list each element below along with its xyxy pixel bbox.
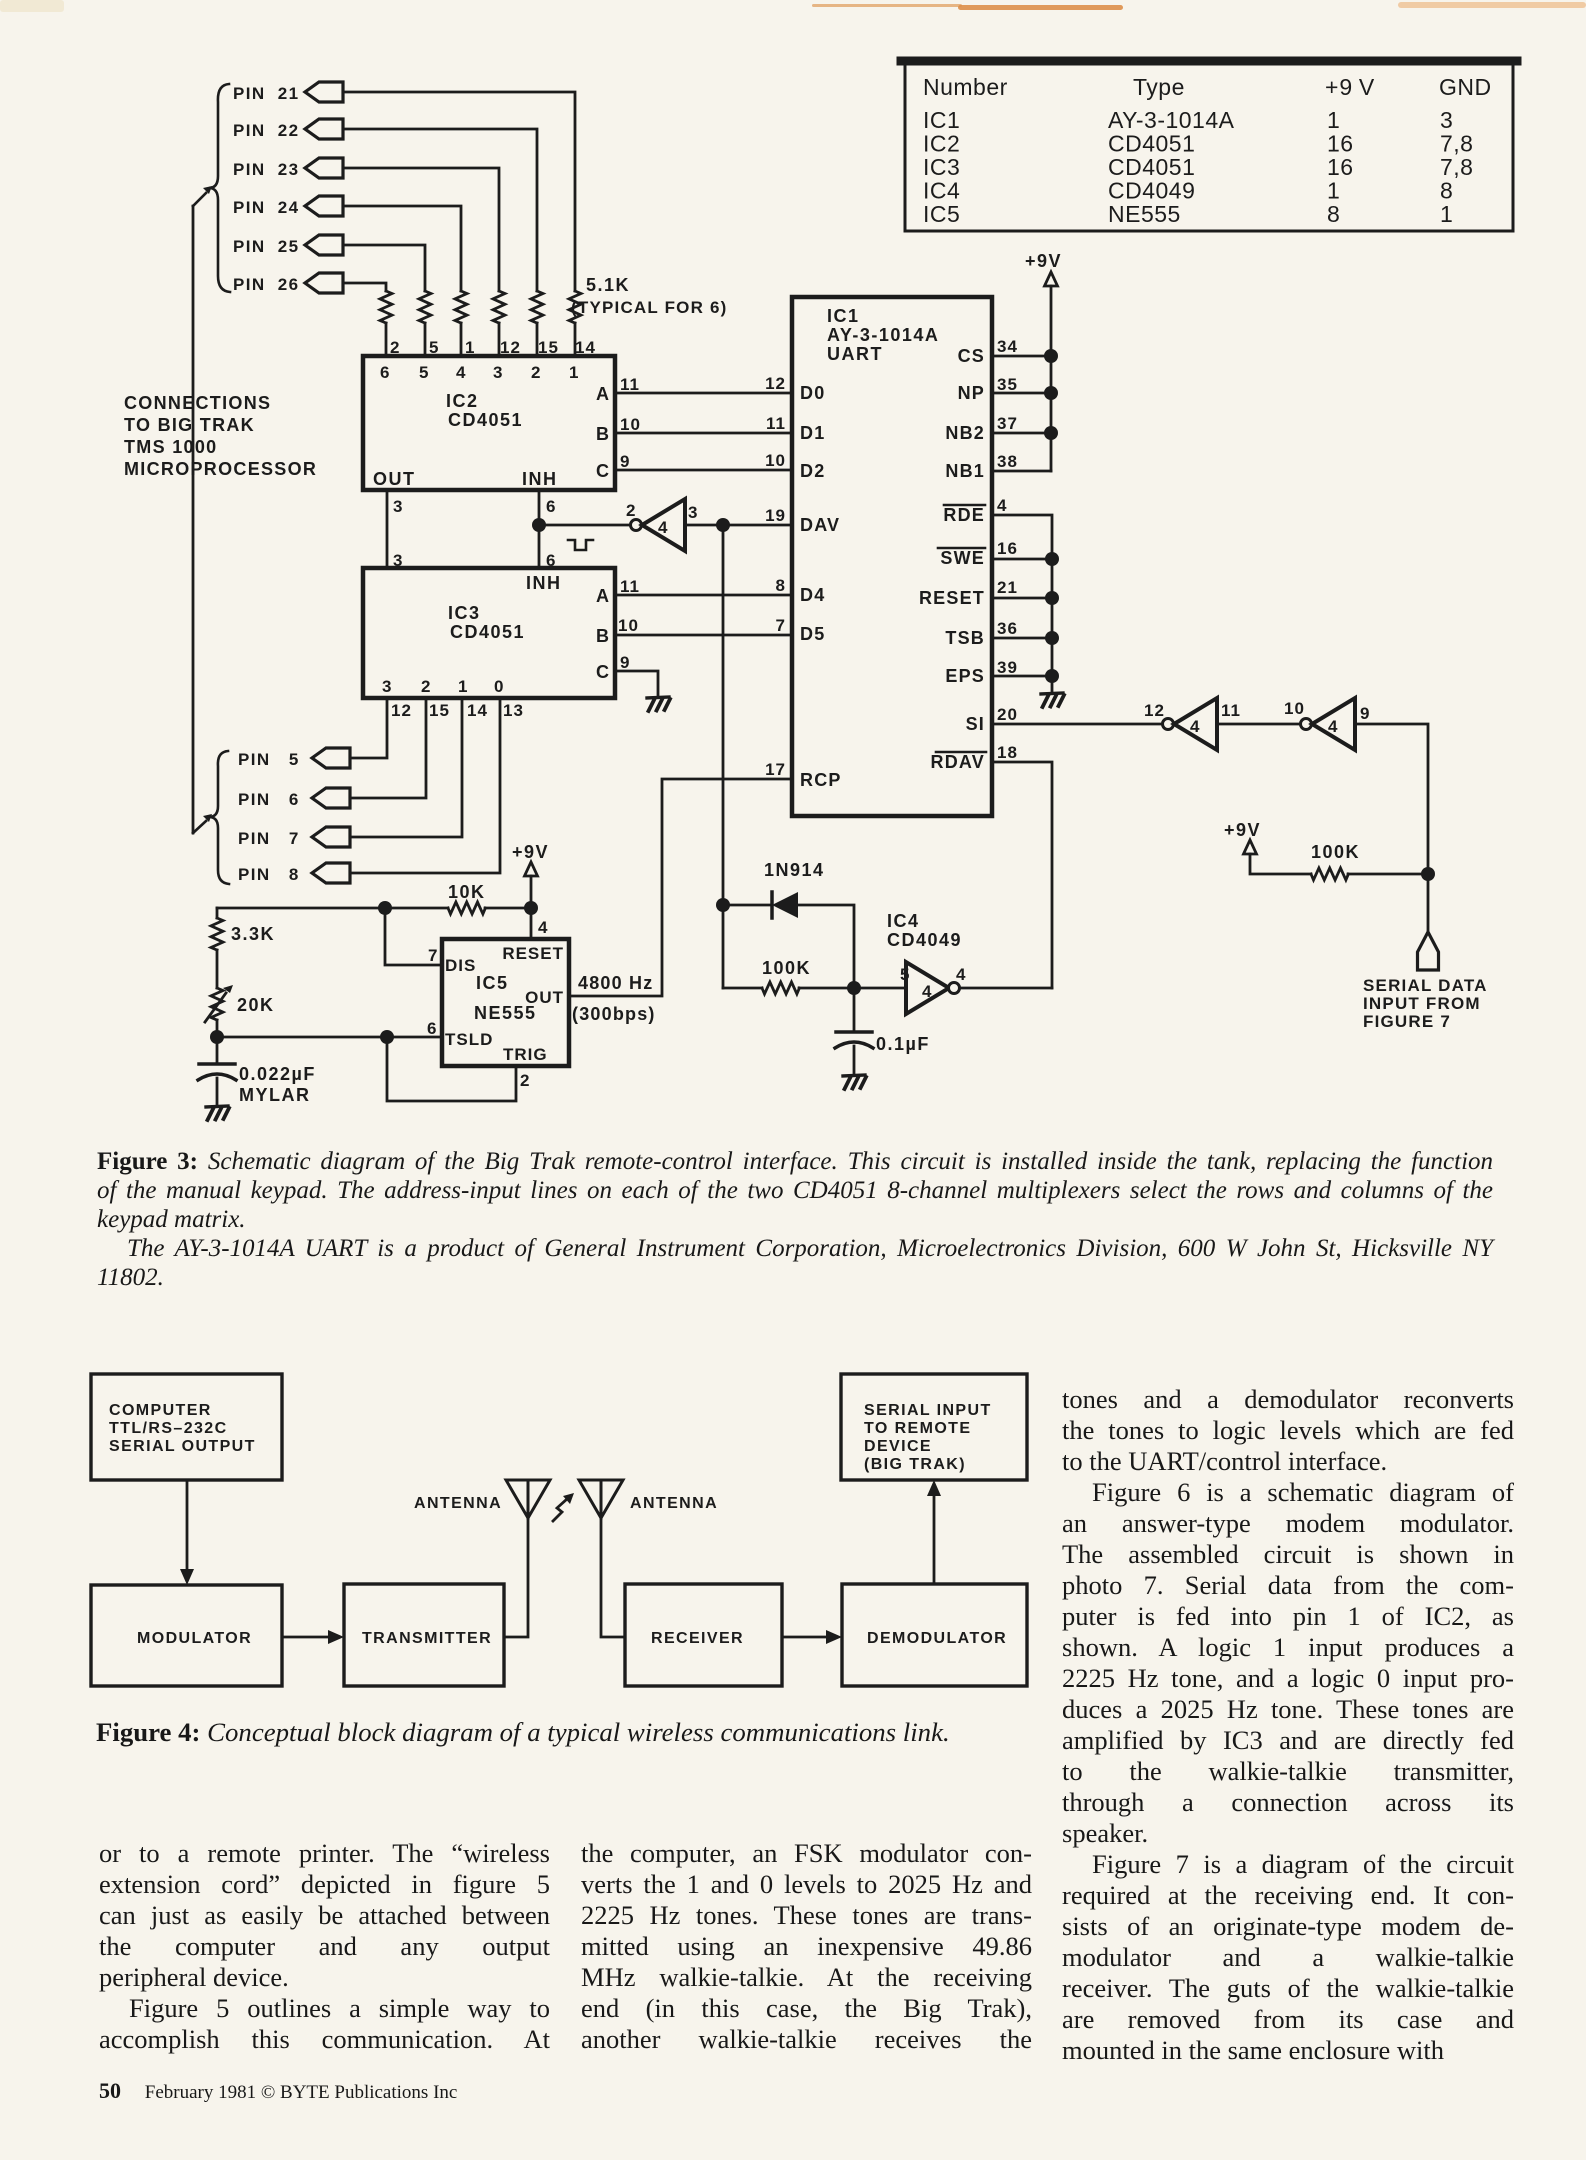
svg-text:C: C [596, 662, 610, 682]
resistor 5.1K #1 (PIN 21) [569, 291, 581, 323]
resistor 5.1K #4 (PIN 24) [455, 291, 467, 323]
svg-text:A: A [596, 586, 610, 606]
svg-text:B: B [596, 424, 610, 444]
svg-text:2: 2 [520, 1071, 530, 1090]
antenna right [579, 1480, 623, 1518]
junction CS [1044, 349, 1058, 363]
svg-text:3: 3 [393, 497, 403, 516]
wire antenna right to RECEIVER [601, 1518, 625, 1637]
svg-text:D2: D2 [800, 461, 825, 481]
wire IC1.EPS to rail [992, 675, 1052, 678]
svg-text:RESET: RESET [919, 588, 985, 608]
resistor 5.1K #3 (PIN 23) [493, 291, 505, 323]
svg-text:34: 34 [997, 337, 1018, 356]
svg-text:1: 1 [458, 677, 468, 696]
scanner streak top right [1398, 2, 1586, 8]
brace PIN21-26 group [209, 84, 230, 292]
brace PIN5-8 group [209, 751, 229, 884]
svg-text:D4: D4 [800, 585, 825, 605]
svg-text:EPS: EPS [945, 666, 985, 686]
svg-text:12: 12 [765, 374, 786, 393]
wire IC2.OUT to IC3 pin3 [386, 490, 389, 568]
svg-text:ANTENNA: ANTENNA [630, 1495, 718, 1512]
figure 3 caption [97, 1147, 1493, 1292]
svg-text:IC5: IC5 [476, 973, 509, 993]
wire IC3.A to IC1.D4 [615, 594, 792, 597]
label ANTENNA left [414, 1495, 502, 1512]
label SERIAL DATA INPUT FROM FIGURE 7 [1363, 976, 1488, 1031]
wire IC1.CS to rail [992, 355, 1051, 358]
IC1 title [827, 306, 939, 364]
connector PIN 23 [233, 158, 343, 179]
arrow COMPUTER to MODULATOR [180, 1480, 194, 1585]
wire +9V to 100K [1250, 854, 1311, 874]
label 4800 Hz / 300bps [572, 973, 656, 1024]
ground 0.1uF [843, 1075, 866, 1089]
potentiometer 20K [205, 985, 233, 1037]
svg-text:TO REMOTE: TO REMOTE [864, 1420, 971, 1437]
label +9V (IC1) [1025, 251, 1062, 271]
wire U4c input from serial node [1355, 724, 1428, 932]
svg-text:GND: GND [1439, 74, 1492, 100]
wire IC2.C to IC1.D2 [615, 469, 792, 472]
labels pin 6/6 (INH net) [546, 497, 556, 570]
svg-text:DEMODULATOR: DEMODULATOR [867, 1630, 1007, 1647]
svg-text:IC1: IC1 [923, 107, 960, 133]
svg-text:7,8: 7,8 [1440, 131, 1473, 157]
IC3 bottom pin numbers [391, 701, 524, 720]
parts table rows [923, 107, 1473, 227]
svg-text:PIN 5: PIN 5 [238, 750, 300, 769]
wire IC2.A to IC1.D0 [615, 392, 792, 395]
svg-text:SERIAL DATA: SERIAL DATA [1363, 976, 1488, 995]
label pins 11/12 (D0 net) [620, 375, 640, 394]
svg-text:16: 16 [997, 539, 1018, 558]
svg-text:0.022µF: 0.022µF [239, 1064, 316, 1084]
junction TSLD/TRIG [380, 1030, 394, 1044]
svg-text:+9 V: +9 V [1325, 74, 1375, 100]
block COMPUTER [91, 1374, 282, 1480]
wire IC3 to PIN 7 [350, 698, 462, 837]
svg-text:SERIAL INPUT: SERIAL INPUT [864, 1402, 992, 1419]
svg-text:CD4051: CD4051 [1108, 131, 1195, 157]
labels IC4 pins 5/4/4 [900, 965, 966, 1001]
svg-text:MICROPROCESSOR: MICROPROCESSOR [124, 459, 317, 479]
svg-text:DIS: DIS [445, 956, 476, 975]
svg-text:DEVICE: DEVICE [864, 1438, 932, 1455]
label 20K [237, 995, 275, 1015]
radio link symbol [553, 1493, 574, 1521]
wire 555 TRIG pin2 [387, 1037, 516, 1101]
svg-text:PIN 6: PIN 6 [238, 790, 300, 809]
svg-text:SI: SI [966, 714, 985, 734]
svg-text:18: 18 [997, 743, 1018, 762]
svg-text:D5: D5 [800, 624, 825, 644]
svg-text:4: 4 [456, 363, 466, 382]
svg-text:(BIG TRAK): (BIG TRAK) [864, 1456, 966, 1473]
capacitor 0.1uF [835, 988, 873, 1074]
junction NB2 [1044, 426, 1058, 440]
svg-text:AY-3-1014A: AY-3-1014A [827, 325, 939, 345]
svg-text:35: 35 [997, 375, 1018, 394]
wire resistor #1 to IC2 [574, 323, 577, 356]
svg-text:COMPUTER: COMPUTER [109, 1402, 212, 1419]
svg-text:TSLD: TSLD [445, 1030, 493, 1049]
connector PIN 6 [238, 788, 350, 809]
label IC4 CD4049 [887, 911, 962, 950]
wire resistor #4 to IC2 [460, 323, 463, 356]
svg-text:5.1K: 5.1K [586, 275, 630, 295]
resistor 5.1K #6 (PIN 26) [380, 291, 392, 323]
svg-text:PIN 22: PIN 22 [233, 121, 300, 140]
svg-text:IC1: IC1 [827, 306, 860, 326]
svg-text:3: 3 [688, 503, 698, 522]
wire +9V rail [1050, 286, 1053, 471]
svg-text:1N914: 1N914 [764, 860, 825, 880]
svg-text:NP: NP [958, 383, 985, 403]
svg-text:D1: D1 [800, 423, 825, 443]
svg-text:0.1µF: 0.1µF [876, 1034, 930, 1054]
block DEMODULATOR [842, 1584, 1027, 1686]
svg-text:15: 15 [429, 701, 450, 720]
resistor 3.3K [211, 908, 223, 988]
svg-text:6: 6 [380, 363, 390, 382]
svg-text:TTL/RS–232C: TTL/RS–232C [109, 1420, 228, 1437]
svg-text:+9V: +9V [1025, 251, 1062, 271]
wire IC1.NP to rail [992, 392, 1051, 395]
antenna left [506, 1480, 550, 1518]
power +9V arrow (serial) [1244, 840, 1257, 854]
arrow DEMODULATOR to SERIAL INPUT [927, 1480, 941, 1584]
wire resistor #5 to IC2 [424, 323, 427, 356]
svg-text:RESET: RESET [502, 944, 564, 963]
diode 1N914 [772, 892, 798, 918]
svg-text:9: 9 [620, 452, 630, 471]
svg-text:+9V: +9V [1224, 820, 1261, 840]
svg-text:2: 2 [626, 501, 636, 520]
IC5 labels [445, 944, 564, 1064]
wire IC1.RDAV to IC4 output [992, 762, 1052, 988]
block TRANSMITTER [344, 1584, 504, 1686]
wire diode anode [723, 904, 770, 907]
wire IC1.NB2 to rail [992, 432, 1051, 435]
svg-text:20: 20 [997, 705, 1018, 724]
power +9V arrow (IC1) [1045, 272, 1058, 286]
svg-text:RDE: RDE [943, 505, 985, 525]
label pin 9 (IC3.C) [620, 653, 630, 672]
label 1N914 [764, 860, 825, 880]
svg-text:6: 6 [546, 497, 556, 516]
inverter U4c (CD4049) [1301, 698, 1356, 750]
ground IC3.C [647, 697, 670, 711]
junction EPS [1045, 669, 1059, 683]
IC5 NE555 box [442, 939, 569, 1066]
IC3 labels [382, 573, 610, 696]
capacitor 0.022uF [198, 1037, 236, 1105]
svg-text:10: 10 [1284, 699, 1305, 718]
svg-text:INH: INH [522, 469, 558, 489]
junction INH node [532, 518, 546, 532]
svg-text:SWE: SWE [940, 548, 985, 568]
junction bias/RESET [524, 901, 538, 915]
svg-text:4: 4 [956, 965, 966, 984]
scanner streak top middle 2 [958, 5, 1123, 10]
connector PIN 24 [233, 196, 343, 217]
svg-text:IC3: IC3 [923, 154, 960, 180]
svg-text:RDAV: RDAV [931, 752, 985, 772]
svg-text:7,8: 7,8 [1440, 154, 1473, 180]
svg-text:CD4049: CD4049 [887, 930, 962, 950]
svg-text:CD4051: CD4051 [450, 622, 525, 642]
svg-text:Number: Number [923, 74, 1008, 100]
svg-text:ANTENNA: ANTENNA [414, 1495, 502, 1512]
body column 3 [1062, 1384, 1514, 2066]
label 3.3K [231, 924, 275, 944]
svg-text:IC3: IC3 [448, 603, 481, 623]
svg-text:4: 4 [658, 518, 668, 537]
wire U4b to U4c [1217, 723, 1301, 726]
svg-text:1: 1 [1327, 178, 1340, 204]
junction TSLD left [210, 1030, 224, 1044]
svg-text:20K: 20K [237, 995, 275, 1015]
svg-text:10K: 10K [448, 882, 486, 902]
connector PIN 21 [233, 82, 343, 103]
ground IC1 control rail [1041, 693, 1064, 707]
svg-text:INH: INH [526, 573, 562, 593]
wire inverter U4a input to IC1.DAV [685, 524, 792, 527]
label pin 7 (555) [428, 946, 438, 965]
IC1 right pin names [919, 346, 985, 772]
label 0.022uF MYLAR [239, 1064, 316, 1105]
footer [99, 2078, 799, 2104]
svg-text:CS: CS [958, 346, 985, 366]
arrow to brace 1 [193, 186, 212, 206]
svg-text:7: 7 [776, 616, 786, 635]
svg-text:NE555: NE555 [474, 1003, 537, 1023]
svg-text:14: 14 [467, 701, 488, 720]
svg-text:(TYPICAL FOR 6): (TYPICAL FOR 6) [571, 298, 728, 317]
resistor 5.1K #2 (PIN 22) [531, 291, 543, 323]
svg-text:37: 37 [997, 414, 1018, 433]
label pin 2 (555) [520, 1071, 530, 1090]
svg-text:100K: 100K [1311, 842, 1360, 862]
label ANTENNA right [630, 1495, 718, 1512]
connector SERIAL DATA INPUT flag [1418, 932, 1439, 970]
svg-text:5: 5 [419, 363, 429, 382]
svg-text:2: 2 [531, 363, 541, 382]
wire IC4 output to RDAV [960, 987, 1052, 990]
svg-text:8: 8 [1327, 201, 1340, 227]
parts table box [901, 59, 1517, 231]
wire IC3.B to IC1.D5 [615, 634, 792, 637]
junction SWE [1045, 552, 1059, 566]
svg-text:CD4051: CD4051 [448, 410, 523, 430]
wire PIN 25 to resistor [343, 245, 425, 291]
wire IC2.B to IC1.D1 [615, 432, 792, 435]
svg-text:AY-3-1014A: AY-3-1014A [1108, 107, 1235, 133]
svg-text:3: 3 [493, 363, 503, 382]
svg-text:RCP: RCP [800, 770, 842, 790]
IC2 labels [373, 363, 610, 489]
block RECEIVER [625, 1584, 782, 1686]
connector PIN 7 [238, 827, 350, 848]
svg-text:PIN 21: PIN 21 [233, 84, 300, 103]
IC3 CD4051 box [363, 568, 615, 698]
wire IC3 to PIN 6 [350, 698, 426, 798]
wire IC2.INH to IC3.INH [538, 490, 541, 568]
svg-text:IC5: IC5 [923, 201, 960, 227]
IC1 right pin numbers [997, 337, 1018, 762]
svg-text:9: 9 [620, 653, 630, 672]
labels U4b pins 12/11/4 [1144, 701, 1241, 736]
body column 1 [99, 1838, 550, 2055]
wire IC1.RCP from 555 [569, 779, 792, 996]
svg-text:19: 19 [765, 506, 786, 525]
svg-text:12: 12 [391, 701, 412, 720]
svg-text:12: 12 [1144, 701, 1165, 720]
svg-text:1: 1 [569, 363, 579, 382]
svg-text:36: 36 [997, 619, 1018, 638]
svg-text:+9V: +9V [512, 842, 549, 862]
svg-text:IC2: IC2 [446, 391, 479, 411]
label 5.1K [571, 275, 728, 317]
wire DAV node down to 100K [722, 525, 725, 988]
svg-text:7: 7 [428, 946, 438, 965]
svg-text:B: B [596, 626, 610, 646]
svg-text:4: 4 [538, 918, 548, 937]
labels pin 3/3 (OUT net) [393, 497, 403, 570]
connector PIN 25 [233, 235, 343, 256]
svg-text:0: 0 [494, 677, 504, 696]
svg-text:PIN 7: PIN 7 [238, 829, 300, 848]
svg-text:C: C [596, 461, 610, 481]
svg-text:9: 9 [1360, 704, 1370, 723]
wire IC3 to PIN 5 [350, 698, 387, 758]
wire IC1.RDE to ground rail [992, 515, 1052, 692]
svg-text:INPUT FROM: INPUT FROM [1363, 994, 1481, 1013]
svg-text:39: 39 [997, 658, 1018, 677]
labels inverter U4a pins 2/3/4 [626, 501, 698, 537]
wire PIN 21 to resistor [343, 92, 575, 291]
block SERIAL INPUT TO REMOTE DEVICE [841, 1374, 1027, 1480]
svg-text:RECEIVER: RECEIVER [651, 1630, 744, 1647]
junction NP [1044, 386, 1058, 400]
arrow RECEIVER to DEMODULATOR [782, 1630, 842, 1644]
svg-text:D0: D0 [800, 383, 825, 403]
wire +9V to bias rail [530, 876, 533, 908]
svg-text:IC2: IC2 [923, 131, 960, 157]
svg-text:11: 11 [1221, 701, 1241, 720]
junction diode node [716, 898, 730, 912]
wire antenna left to TRANSMITTER [504, 1518, 528, 1637]
inverter IC4 CD4049 [906, 962, 960, 1014]
wire resistor #6 to IC2 [385, 323, 388, 356]
svg-text:TRANSMITTER: TRANSMITTER [362, 1630, 492, 1647]
svg-text:CD4049: CD4049 [1108, 178, 1195, 204]
resistor 100K (IC4 input) [723, 982, 906, 994]
connector PIN 8 [238, 863, 350, 884]
svg-text:NB2: NB2 [945, 423, 985, 443]
svg-text:TMS 1000: TMS 1000 [124, 437, 217, 457]
wire IC1.TSB to rail [992, 637, 1052, 640]
svg-text:MODULATOR: MODULATOR [137, 1630, 252, 1647]
resistor 5.1K #5 (PIN 25) [419, 291, 431, 323]
wire PIN 24 to resistor [343, 206, 461, 291]
arrow MODULATOR to TRANSMITTER [282, 1630, 344, 1644]
svg-text:TO BIG TRAK: TO BIG TRAK [124, 415, 255, 435]
connector PIN 5 [238, 748, 350, 769]
svg-text:SERIAL OUTPUT: SERIAL OUTPUT [109, 1438, 256, 1455]
svg-text:16: 16 [1327, 154, 1354, 180]
wire IC1.NB1 to rail [992, 470, 1051, 473]
scanner streak top middle [812, 4, 962, 7]
svg-text:38: 38 [997, 452, 1018, 471]
svg-text:TSB: TSB [945, 628, 985, 648]
svg-text:PIN 25: PIN 25 [233, 237, 300, 256]
svg-text:TRIG: TRIG [503, 1045, 548, 1064]
svg-text:MYLAR: MYLAR [239, 1085, 311, 1105]
svg-text:OUT: OUT [373, 469, 416, 489]
junction serial input node [1421, 867, 1435, 881]
svg-text:11: 11 [766, 414, 786, 433]
wire 100K to serial node [1348, 873, 1428, 876]
svg-text:CD4051: CD4051 [1108, 154, 1195, 180]
wire INH node to inverter U4a output [539, 524, 631, 527]
label 100K (pullup) [1311, 842, 1360, 862]
body column 2 [581, 1838, 1032, 2055]
label +9V (555) [512, 842, 549, 862]
svg-text:NB1: NB1 [945, 461, 985, 481]
svg-text:UART: UART [827, 344, 883, 364]
IC2 top pin numbers [390, 338, 596, 357]
svg-text:2: 2 [421, 677, 431, 696]
junction DAV node [716, 518, 730, 532]
wire IC1.SI to inverter U4b [992, 723, 1163, 726]
svg-text:FIGURE 7: FIGURE 7 [1363, 1012, 1451, 1031]
svg-text:3.3K: 3.3K [231, 924, 275, 944]
label pins 9/10 (D2 net) [620, 452, 630, 471]
junction TSB [1045, 631, 1059, 645]
wire PIN 23 to resistor [343, 168, 499, 291]
svg-text:CONNECTIONS: CONNECTIONS [124, 393, 271, 413]
svg-text:IC4: IC4 [923, 178, 960, 204]
arrow to brace 2 [193, 814, 212, 833]
svg-text:DAV: DAV [800, 515, 840, 535]
block MODULATOR [91, 1585, 282, 1686]
svg-text:PIN 23: PIN 23 [233, 160, 300, 179]
parts table header [923, 74, 1492, 100]
wire 555 DIS pin7 [385, 908, 442, 965]
svg-text:NE555: NE555 [1108, 201, 1181, 227]
svg-text:6: 6 [427, 1019, 437, 1038]
svg-text:10: 10 [620, 415, 641, 434]
wire 555 TSLD pin6 [217, 1036, 442, 1039]
svg-text:10: 10 [765, 451, 786, 470]
labels U4c pins 10/9/4 [1284, 699, 1370, 736]
label pin 17 (RCP) [0, 0, 1, 1]
junction bias/DIS [378, 901, 392, 915]
svg-text:10: 10 [618, 616, 639, 635]
svg-text:13: 13 [503, 701, 524, 720]
wire PIN 22 to resistor [343, 129, 537, 291]
IC1 left pin numbers [765, 374, 786, 779]
junction RESET [1045, 591, 1059, 605]
svg-text:100K: 100K [762, 958, 811, 978]
wire resistor #3 to IC2 [498, 323, 501, 356]
ground 0.022uF [206, 1106, 229, 1120]
label pin 6 (555) [427, 1019, 437, 1038]
svg-text:8: 8 [776, 576, 786, 595]
